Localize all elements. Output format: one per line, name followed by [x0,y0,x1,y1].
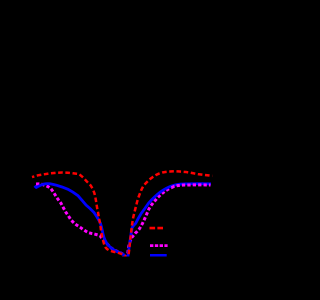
curve magenta square-dotted [36,184,172,262]
legend sample red dashed [150,227,164,230]
chart: transmission resonance dip plot on black background [0,0,232,300]
legend sample blue solid [150,254,167,257]
legend sample magenta dotted [150,244,168,247]
curve red dashed (upper) [32,171,212,261]
curve magenta square-dotted (right plateau overlay) [172,185,211,188]
curve blue solid [35,184,212,259]
